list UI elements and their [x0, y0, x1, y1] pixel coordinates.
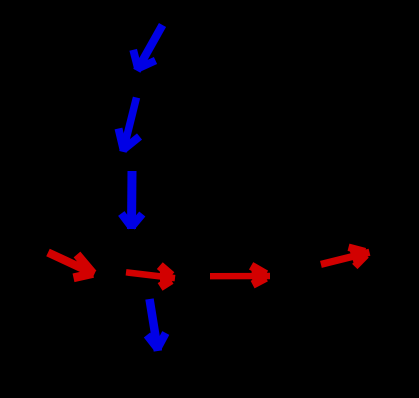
blue arrow 4 (bottom, pointing down) — [147, 299, 166, 351]
blue arrow 2 (pointing down-left) — [119, 98, 140, 152]
red arrow 3 (middle, pointing right) — [210, 266, 270, 285]
red arrow 2 (pointing right) — [126, 266, 175, 287]
blue arrow 3 (vertical, pointing down) — [121, 171, 142, 229]
red arrow 4 (right, pointing up-right) — [321, 247, 370, 266]
red arrow 1 (left, pointing down-right) — [48, 253, 94, 278]
blue arrow 1 (top, pointing down-left) — [133, 25, 162, 71]
